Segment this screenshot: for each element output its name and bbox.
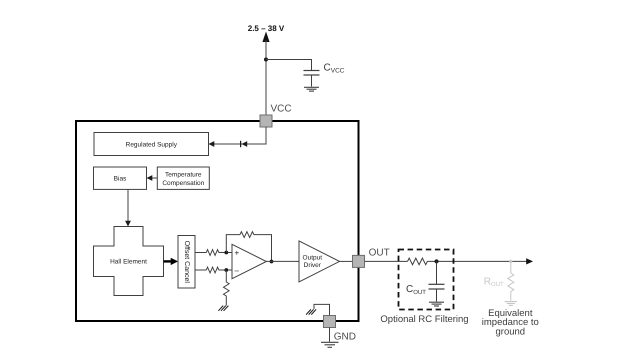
svg-text:Temperature: Temperature — [165, 171, 202, 178]
earth ground GND — [321, 342, 339, 347]
wire op-amp to Output Driver — [266, 260, 299, 262]
svg-text:Hall Element: Hall Element — [110, 258, 147, 265]
svg-text:OUT: OUT — [369, 248, 390, 259]
block Regulated Supply — [94, 133, 209, 156]
node ROUT tap — [509, 260, 512, 263]
svg-text:Optional RC Filtering: Optional RC Filtering — [380, 314, 468, 325]
arrowhead into Regulated Supply — [209, 141, 215, 147]
wire VCC to Regulated Supply — [209, 127, 267, 144]
pin VCC — [260, 115, 272, 127]
resistor to ground from - input — [224, 270, 230, 306]
block Offset Cancel — [178, 236, 195, 289]
ground for COUT — [429, 302, 444, 306]
op-amp — [232, 244, 266, 278]
wire to op-amp + input — [219, 252, 232, 254]
wire Output Driver to OUT pin — [340, 260, 353, 262]
resistor top input — [206, 250, 219, 256]
pin GND — [324, 316, 336, 328]
svg-text:Offset Cancel: Offset Cancel — [183, 241, 191, 284]
arrow Temperature Compensation to Bias — [152, 177, 158, 179]
svg-text:Compensation: Compensation — [162, 180, 204, 187]
feedback resistor — [240, 232, 254, 238]
feedback wire down to output — [254, 235, 272, 262]
wire to op-amp - input — [219, 269, 232, 271]
wire GND external — [329, 328, 331, 342]
dashed box optional RC filtering — [399, 250, 454, 310]
Hall Element cross — [94, 227, 164, 296]
svg-text:ground: ground — [496, 326, 526, 337]
capacitor COUT — [436, 261, 438, 284]
wire after filter resistor — [427, 260, 527, 262]
block Temperature Compensation — [157, 167, 209, 189]
svg-text:–: – — [235, 266, 240, 275]
svg-text:Output: Output — [303, 254, 323, 261]
feedback wire — [226, 235, 240, 253]
svg-text:Driver: Driver — [304, 262, 322, 269]
svg-text:GND: GND — [334, 332, 356, 343]
svg-text:Regulated Supply: Regulated Supply — [126, 141, 178, 148]
pin OUT — [353, 255, 365, 267]
supply arrow up — [262, 32, 269, 43]
wire GND internal — [314, 304, 330, 315]
svg-text:VCC: VCC — [271, 104, 292, 115]
chassis ground below resistor — [218, 306, 228, 311]
wire to CVCC — [266, 60, 312, 71]
ground for CVCC — [304, 87, 319, 91]
node output — [270, 260, 274, 264]
resistor ROUT equivalent impedance — [508, 261, 514, 300]
node junction at CVCC tap — [264, 58, 268, 62]
Output Driver triangle — [299, 241, 340, 282]
chassis ground internal — [306, 309, 316, 314]
wire Offset Cancel top output — [195, 252, 206, 254]
node - input — [224, 268, 228, 272]
wire OUT net — [365, 260, 408, 262]
capacitor CVCC — [304, 70, 320, 72]
wire Bias to Hall Element — [127, 189, 129, 222]
node + input — [224, 251, 228, 255]
arrowhead end of OUT net — [526, 258, 533, 264]
IC body box — [76, 121, 359, 321]
wire VCC vertical — [265, 40, 267, 115]
block Bias — [94, 167, 147, 189]
mid-wire arrow marker — [240, 141, 242, 147]
svg-text:Bias: Bias — [114, 175, 127, 182]
ground for ROUT — [505, 302, 517, 306]
resistor bottom input — [206, 267, 219, 273]
node COUT tap — [435, 259, 439, 263]
resistor RC filter — [408, 258, 428, 265]
wire Offset Cancel bottom output — [195, 269, 206, 271]
svg-text:+: + — [235, 248, 240, 257]
svg-text:2.5 – 38 V: 2.5 – 38 V — [248, 24, 285, 33]
thick arrow Hall to Offset Cancel — [164, 260, 172, 262]
